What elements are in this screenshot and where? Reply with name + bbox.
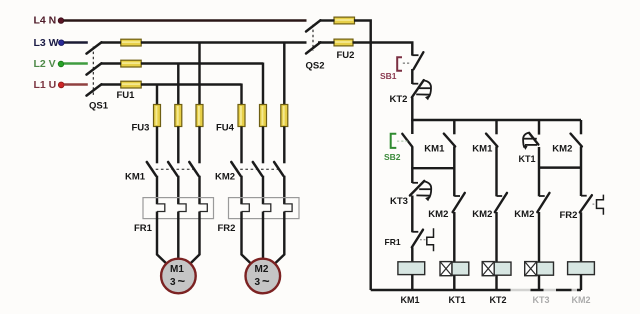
wire col5 bus to KM2 contact	[580, 120, 582, 134]
contact KM2 NC (col3)	[472, 193, 507, 220]
coil KM2	[568, 262, 595, 305]
time contact KT1 (col4)	[519, 133, 539, 164]
wire col1 coil to bottom bus	[411, 275, 413, 290]
svg-text:~: ~	[262, 274, 270, 289]
svg-text:3: 3	[255, 277, 261, 288]
wire C6 fuse to KM2	[283, 127, 285, 164]
wire col2 middle	[453, 146, 455, 196]
pushbutton SB1	[380, 52, 423, 81]
wire col1 SB2 to KT3	[411, 147, 413, 184]
svg-text:KM2: KM2	[552, 144, 572, 155]
wire C5 fuse to KM2	[262, 127, 264, 164]
wire C4 fuse to KM2	[240, 127, 242, 164]
wire col5 to KM2 coil	[580, 212, 582, 262]
switch QS2	[306, 20, 325, 71]
wire C3 fuse to KM1	[198, 127, 200, 164]
svg-text:KM1: KM1	[472, 144, 493, 155]
wire C6 FR2 to M2	[275, 212, 285, 264]
svg-text:KM2: KM2	[428, 209, 448, 220]
svg-text:SB2: SB2	[384, 152, 401, 162]
wire L1 U	[64, 83, 88, 85]
wire branch C4	[240, 84, 242, 106]
wire branch C1	[156, 84, 158, 106]
wire C3 KM1 to FR1	[198, 176, 200, 205]
wire col3 middle	[495, 146, 497, 196]
contact KM2 NC (col4)	[514, 193, 549, 220]
svg-text:L2 V: L2 V	[34, 58, 56, 70]
wire L4 N	[64, 19, 307, 21]
svg-text:FR1: FR1	[385, 237, 401, 247]
coil KT1	[440, 262, 469, 306]
time contact KT3	[390, 181, 431, 207]
svg-text:FR2: FR2	[560, 210, 578, 221]
svg-text:QS2: QS2	[306, 61, 325, 72]
wire bottom bus	[371, 289, 581, 292]
svg-text:KT3: KT3	[390, 196, 408, 207]
wire branch C3	[198, 42, 200, 106]
svg-text:FR2: FR2	[218, 223, 236, 234]
fuse FU2	[334, 17, 355, 61]
wire col2 bus to KM1 contact	[453, 120, 455, 134]
svg-text:~: ~	[178, 274, 186, 289]
wire C1 KM1 to FR1	[156, 176, 158, 205]
thermal relay FR1	[134, 198, 214, 234]
wire branch C6	[283, 42, 285, 106]
node L4 N	[34, 15, 64, 27]
svg-text:L4 N: L4 N	[34, 15, 57, 27]
time contact KT2	[390, 80, 432, 105]
svg-text:L1 U: L1 U	[34, 79, 57, 91]
wire col3 coil to bus	[495, 275, 497, 290]
wire C5 FR2 to M2	[262, 212, 264, 260]
thermal relay FR2	[218, 198, 300, 234]
wire col2 to KT1 coil	[453, 212, 455, 262]
wire branch C2	[177, 63, 179, 106]
fuse FU1	[117, 39, 142, 101]
svg-text:FU3: FU3	[132, 123, 150, 134]
wire top control bus	[411, 119, 581, 121]
wire C4 FR2 to M2	[242, 212, 252, 264]
svg-text:FU2: FU2	[337, 50, 355, 61]
wire N to left rail	[354, 21, 371, 291]
node L3 W	[34, 37, 65, 49]
wire C4 KM2 to FR2	[240, 176, 242, 205]
svg-text:KT1: KT1	[449, 295, 466, 305]
motor M2	[245, 259, 280, 294]
motor M1	[161, 259, 196, 294]
wire W to control column	[353, 43, 413, 56]
wire C3 FR1 to M1	[190, 212, 199, 264]
wire C2 KM1 to FR1	[177, 176, 179, 205]
wire C2 FR1 to M1	[177, 212, 179, 260]
svg-text:KM2: KM2	[514, 209, 534, 220]
wire W phase	[101, 41, 307, 43]
contactor KM2 main contacts	[215, 162, 283, 182]
contact FR1 NC	[385, 228, 434, 251]
wire col5 middle	[580, 146, 582, 196]
wire link col4-col5	[539, 166, 581, 168]
contactor KM1 main contacts	[125, 162, 199, 182]
contact KM2 NO (col5)	[552, 134, 582, 155]
svg-text:QS1: QS1	[89, 101, 109, 112]
wire col1 SB1 to KT2	[411, 69, 413, 84]
wire seal-in link col1-col2	[411, 167, 454, 169]
wire col1 FR1 to coil	[411, 247, 413, 262]
svg-text:KM1: KM1	[125, 171, 146, 182]
wire L3 W	[64, 41, 88, 43]
wire V phase	[101, 62, 263, 64]
svg-text:KT3: KT3	[533, 295, 550, 305]
wire col1 KT2 to bus	[411, 97, 413, 121]
switch QS1	[87, 42, 109, 111]
svg-text:KM2: KM2	[215, 171, 235, 182]
wire C1 FR1 to M1	[157, 212, 167, 264]
wire col4 middle	[538, 147, 540, 196]
contact KM2 NC (col2)	[428, 193, 465, 220]
wire C1 fuse to KM1	[156, 127, 158, 164]
coil KT2	[482, 262, 511, 305]
svg-text:KM1: KM1	[401, 295, 420, 305]
wire U phase	[101, 83, 242, 85]
svg-text:KM2: KM2	[472, 209, 492, 220]
wire col2 coil to bus	[453, 275, 455, 290]
coil KM1	[398, 262, 425, 305]
wire col3 bus to KM1 contact	[495, 120, 497, 134]
wire col1 bus to SB2	[411, 120, 413, 134]
contact FR2 NC (col5)	[560, 195, 604, 221]
svg-text:L3 W: L3 W	[34, 37, 59, 49]
svg-text:3: 3	[170, 277, 176, 288]
node L2 V	[34, 58, 64, 70]
svg-text:KT2: KT2	[390, 94, 408, 105]
wire col4 bus to KT1 contact	[538, 120, 540, 135]
wire branch C5	[262, 63, 264, 106]
wire col1 KT3 to FR1 contact	[411, 196, 413, 233]
contact KM1 NO (col3)	[472, 134, 497, 155]
svg-text:KM2: KM2	[572, 295, 591, 305]
svg-text:KM1: KM1	[424, 144, 445, 155]
wire col3 to KT2 coil	[495, 212, 497, 262]
fuse FU4	[216, 105, 288, 134]
wire N after QS2	[320, 19, 335, 21]
wire L2 V	[64, 62, 88, 64]
wire col5 coil to bus	[580, 275, 582, 290]
pushbutton SB2	[384, 134, 412, 162]
svg-text:KT1: KT1	[519, 154, 536, 164]
svg-text:FU1: FU1	[117, 90, 136, 101]
wire C5 KM2 to FR2	[262, 176, 264, 205]
fuse FU3	[132, 105, 204, 134]
svg-text:FR1: FR1	[134, 223, 153, 234]
svg-text:FU4: FU4	[216, 123, 235, 134]
watermark patches on bottom bus	[511, 288, 578, 293]
wire C6 KM2 to FR2	[283, 176, 285, 205]
contact KM1 NO (col2)	[424, 134, 455, 155]
wire C2 fuse to KM1	[177, 127, 179, 164]
wire W after QS2	[318, 41, 335, 43]
node L1 U	[34, 79, 65, 91]
coil KT3	[525, 262, 554, 305]
svg-text:SB1: SB1	[380, 71, 397, 81]
wire col4 to KT3 coil	[538, 212, 540, 262]
svg-text:KT2: KT2	[490, 295, 507, 305]
wire col4 coil to bus	[538, 275, 540, 290]
